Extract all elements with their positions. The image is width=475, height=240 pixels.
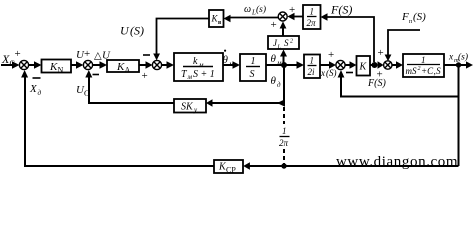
label 1/2pi numerator — [310, 7, 315, 17]
wire 1/2i to S4 — [320, 64, 330, 66]
svg-text:1: 1 — [251, 56, 256, 67]
summer S3 — [152, 60, 161, 69]
arrowhead up into S1 — [21, 70, 28, 78]
block KCP — [214, 160, 243, 173]
block 1/S — [240, 54, 266, 81]
vertical wire JL block up to ST — [282, 28, 284, 36]
wire S3 to motor block — [162, 64, 167, 66]
arrowhead up into JL block — [280, 50, 287, 57]
svg-text:SK: SK — [181, 102, 194, 113]
label 1/2i denominator — [308, 67, 316, 77]
label 1/2pi bottom denominator — [279, 138, 289, 148]
svg-text:θ: θ — [271, 75, 277, 87]
node A junction dot — [281, 62, 287, 68]
fraction bar mass — [407, 64, 440, 66]
label mass numerator 1 — [421, 55, 426, 65]
label 1/S numerator — [251, 56, 256, 67]
fraction bar 1/2pi bottom — [280, 136, 290, 138]
fraction bar 1/2i — [308, 65, 317, 67]
label mass denominator — [406, 66, 442, 76]
label xt(s) — [448, 52, 468, 65]
wire motor to 1/S — [223, 64, 233, 66]
svg-text:1: 1 — [310, 7, 315, 17]
arrowhead into S3 — [146, 61, 153, 69]
arrowhead into ST from right — [287, 13, 294, 21]
wire KA to S3 — [139, 64, 147, 66]
wire S2 to KA — [93, 64, 100, 66]
block SKy — [174, 99, 206, 113]
svg-text:mS: mS — [406, 66, 417, 76]
label delta-U — [94, 50, 111, 62]
svg-text:F: F — [401, 11, 409, 23]
svg-text:k: k — [193, 56, 198, 67]
label K — [359, 62, 368, 73]
label KA — [116, 61, 131, 75]
label plus sign above-left S5 — [378, 47, 384, 59]
svg-text:CP: CP — [226, 166, 236, 175]
wire feedback row to S4 — [341, 77, 459, 97]
wire 1/2pi to ST — [294, 16, 303, 18]
svg-text:+: + — [15, 48, 21, 60]
arrowhead into Ka — [224, 15, 231, 23]
block Ka — [209, 10, 224, 27]
svg-text:θ: θ — [271, 53, 277, 65]
label JL S^2 — [273, 38, 293, 51]
svg-text:м: м — [187, 73, 193, 81]
label KN — [49, 61, 64, 75]
svg-text:1: 1 — [282, 126, 287, 136]
wire node A down to tach row corner — [212, 65, 284, 103]
svg-text:+C‚S: +C‚S — [421, 66, 441, 76]
node input arrowhead — [12, 61, 20, 69]
label F(S) below node F — [367, 78, 386, 89]
wire SKy to S2 bottom — [89, 77, 174, 103]
wire bottom rail right — [250, 165, 459, 167]
label motor denominator TmS+1 — [181, 69, 215, 81]
label 1/S denominator — [250, 69, 255, 80]
svg-text:1: 1 — [310, 56, 315, 66]
label Xc — [1, 52, 15, 68]
wire input Xc — [1, 64, 13, 66]
svg-text:x: x — [320, 68, 325, 78]
svg-text:(S): (S) — [130, 24, 144, 38]
arrowhead into 1/2pi right edge — [321, 13, 328, 21]
block K — [357, 56, 371, 76]
svg-text:+: + — [142, 70, 148, 82]
wire ST to Ka — [230, 17, 278, 19]
block 1/2pi top — [303, 5, 321, 29]
svg-text:д: д — [277, 81, 281, 89]
label minus sign below-right S4 — [346, 72, 353, 74]
label plus sign at summer S1 input — [15, 48, 21, 60]
wire output xt — [444, 64, 466, 66]
wire Fn(S) into S5 — [388, 30, 420, 55]
summer S4 — [336, 60, 345, 69]
svg-text:S: S — [284, 38, 289, 48]
svg-text:ω: ω — [244, 4, 251, 15]
svg-text:www.diangon.com: www.diangon.com — [336, 154, 458, 170]
label 1/2i numerator — [310, 56, 315, 66]
wire K to node F — [370, 64, 377, 66]
svg-text:2π: 2π — [279, 138, 289, 148]
node bottom rail junction dot — [281, 163, 286, 168]
svg-text:N: N — [58, 66, 64, 75]
svg-text:F(S): F(S) — [367, 78, 386, 89]
arrowhead up into S2 — [85, 70, 92, 78]
arrowhead into mass block — [396, 61, 403, 69]
arrowhead into 1/2i — [297, 61, 305, 69]
svg-text:△: △ — [94, 51, 102, 62]
arrowhead into SKy block right — [206, 99, 213, 107]
wire Ka output to S3 top corner — [157, 19, 210, 55]
label minus bar above Xd — [33, 77, 41, 79]
svg-text:+: + — [84, 48, 90, 60]
label plus sign above-left S4 — [328, 49, 334, 61]
svg-text:(s): (s) — [458, 52, 468, 63]
label Xd feedback — [29, 83, 42, 97]
summer ST — [278, 12, 287, 21]
label minus sign above-left S3 — [143, 54, 150, 56]
arrowhead into S2 — [76, 61, 83, 69]
svg-text:м: м — [198, 61, 204, 69]
arrowhead into KA — [100, 61, 108, 69]
label theta-d below wire — [271, 75, 282, 89]
wire KN to S2 — [71, 64, 77, 66]
fraction bar 1/2pi — [307, 16, 317, 18]
arrowhead into S4 — [329, 61, 336, 69]
label plus sign left-bottom of ST — [271, 19, 277, 31]
svg-text:S + 1: S + 1 — [193, 69, 215, 80]
wire xt feedback vertical right — [458, 65, 460, 166]
arrowhead into 1/S — [233, 61, 241, 69]
block 1/2i — [304, 55, 320, 79]
label Ka — [211, 14, 223, 27]
label plus sign right-top of ST — [289, 4, 295, 16]
block KA — [107, 60, 139, 72]
svg-text:C: C — [10, 59, 15, 68]
label SKy — [181, 102, 198, 115]
svg-text:2: 2 — [290, 39, 293, 45]
block mass 1/(mS^2+CfS) — [403, 54, 444, 77]
svg-text:(S): (S) — [326, 68, 337, 78]
label Uc — [76, 84, 89, 98]
svg-text:(S): (S) — [413, 11, 426, 23]
label theta-m above wire — [271, 53, 283, 67]
svg-text:(s): (s) — [256, 4, 266, 15]
arrowhead into KCP right — [243, 162, 250, 170]
label omega-L(s) — [244, 4, 266, 17]
svg-text:+: + — [328, 49, 334, 61]
arrowhead into S5 — [378, 61, 384, 69]
label plus sign at summer S2 — [84, 48, 90, 60]
block JL S^2 — [268, 36, 299, 49]
label 1/2pi bottom numerator — [282, 126, 287, 136]
svg-text:2i: 2i — [308, 67, 316, 77]
svg-text:+: + — [378, 47, 384, 59]
svg-text:C: C — [84, 89, 89, 98]
arrowhead into KN — [34, 61, 42, 69]
svg-text:K: K — [359, 62, 368, 73]
wire dashed fraction to bottom rail — [283, 149, 285, 164]
arrowhead into motor block — [167, 61, 175, 69]
summer S2 — [83, 60, 92, 69]
wire bottom rail left and up to S1 — [25, 77, 214, 166]
label motor numerator km — [193, 56, 204, 69]
label F(S) top — [330, 3, 352, 17]
summer S5 — [384, 61, 392, 69]
arrowhead into K — [350, 61, 357, 69]
svg-text:2π: 2π — [307, 18, 317, 28]
wire F(S) top rail — [327, 17, 374, 62]
arrowhead up into ST — [280, 21, 287, 28]
label 1/2pi denominator — [307, 18, 317, 28]
summer S1 — [19, 60, 28, 69]
fraction bar 1/S — [246, 66, 260, 68]
arrowhead down into S3 — [153, 54, 160, 61]
label U — [76, 49, 85, 61]
label x(S) — [320, 68, 337, 78]
wire dashed node A to bottom rail upper part — [283, 107, 285, 124]
svg-text:+: + — [271, 19, 277, 31]
svg-text:U: U — [120, 24, 130, 38]
label minus sign below S2 — [93, 74, 100, 76]
wire S5 to mass block — [392, 64, 397, 66]
wire S4 to K — [345, 64, 350, 66]
svg-text:F(S): F(S) — [330, 3, 352, 17]
svg-text:S: S — [250, 69, 255, 80]
label U(S) — [120, 24, 144, 38]
arrowhead down into S5 — [385, 55, 392, 62]
svg-text:L: L — [277, 45, 282, 51]
label KCP — [218, 162, 236, 175]
block motor km/(TmS+1) — [174, 53, 223, 81]
label plus sign below-left S3 — [142, 70, 148, 82]
node F junction dot — [372, 62, 378, 68]
svg-text:A: A — [125, 66, 131, 75]
arrowhead at tach corner — [277, 99, 285, 106]
node xt output dot — [456, 62, 461, 67]
svg-text:д: д — [38, 89, 42, 97]
wire S1 to KN — [29, 64, 34, 66]
vertical wire node A up to JL block — [283, 56, 285, 65]
arrowhead up into S4 — [338, 70, 345, 78]
wire 1/S to node A — [266, 64, 297, 66]
block KN — [42, 60, 72, 73]
label Fn(S) disturbance — [401, 11, 426, 25]
output arrowhead — [466, 61, 473, 68]
svg-text:м: м — [276, 59, 282, 67]
svg-text:1: 1 — [421, 55, 426, 65]
label theta-dot-m — [223, 46, 235, 68]
label plus sign below-left S5 — [377, 69, 383, 81]
fraction bar motor — [183, 66, 213, 68]
